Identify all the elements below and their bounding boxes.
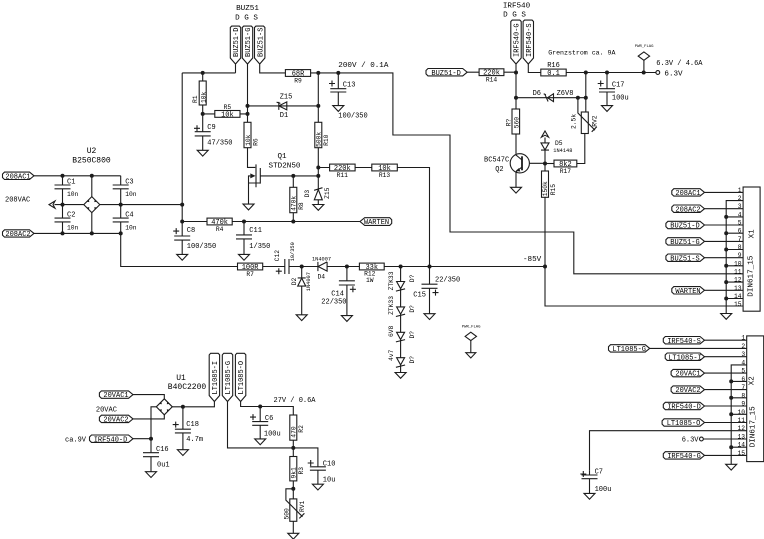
svg-text:20VAC2: 20VAC2 [675,387,700,395]
junction R5 R6 [246,112,250,116]
net label IRF540-D [90,435,134,445]
svg-text:ZTK33: ZTK33 [388,296,395,315]
svg-text:RV2: RV2 [591,115,598,127]
net label 20VAC1 X2 [671,369,747,378]
junction Q2 base D5 [543,162,547,166]
capacitor C8 [173,222,216,255]
svg-text:208AC2: 208AC2 [5,231,30,239]
svg-text:208AC1: 208AC1 [675,190,700,198]
net label LT1085-O X2 [662,419,747,428]
svg-text:22/350: 22/350 [321,298,346,306]
ground C16 [146,472,157,478]
resistor R11 [330,164,356,179]
wire -85V to X1 pin15 [545,267,743,307]
svg-text:R15: R15 [550,184,557,196]
svg-text:D?: D? [409,305,416,313]
svg-text:208VAC: 208VAC [5,197,30,205]
junction R1 R5 [201,112,205,116]
net label 20VAC1 [99,391,133,400]
net label 20VAC2 X2 [671,386,747,395]
svg-text:Z15: Z15 [280,94,293,102]
junction drain R8 [291,174,295,178]
junction warten R8 [291,220,295,224]
svg-text:4v7: 4v7 [388,349,395,361]
resistor R1 [192,73,207,114]
svg-text:LT1085-I: LT1085-I [668,354,702,362]
svg-text:WARTEN: WARTEN [675,288,700,296]
wire IRF540-D [133,438,151,440]
junction rail R14 G [514,71,518,75]
svg-text:IRF540-S: IRF540-S [526,23,534,57]
svg-text:20VAC: 20VAC [96,407,117,415]
net label 208AC2 [3,230,35,239]
svg-text:R9: R9 [294,77,302,84]
junction X1 pin6 [724,231,728,235]
svg-text:IRF540-G: IRF540-G [667,453,701,461]
junction X1 pin10 [724,264,728,268]
wire WARTEN line [182,221,360,223]
svg-text:Z6V8: Z6V8 [557,90,574,98]
svg-text:208AC1: 208AC1 [5,173,30,181]
svg-text:20VAC1: 20VAC1 [675,371,700,379]
wire bridge plus [172,406,215,408]
svg-text:6.3V / 4.6A: 6.3V / 4.6A [656,60,703,68]
net label LT1085-G vertical [222,353,293,448]
net label IRF540-G vertical [511,20,522,64]
svg-text:X1: X1 [748,229,756,239]
wire RV2 feed [585,73,587,113]
svg-text:0u1: 0u1 [157,461,170,469]
svg-text:Q2: Q2 [495,166,503,174]
ground RV1 [288,533,299,539]
svg-text:LT1085-G: LT1085-G [225,361,233,395]
svg-text:D G S: D G S [235,14,258,22]
net label IRF540-G X2 [663,452,746,461]
resistor R9 [285,70,310,85]
svg-text:C6: C6 [265,415,273,423]
svg-text:D?: D? [409,274,416,282]
junction X1 pin12 [724,280,728,284]
svg-text:LT1085-G: LT1085-G [612,346,646,354]
svg-text:IRF540: IRF540 [503,3,531,11]
zener D3 Z15 [304,176,331,205]
wire top rail left segment [182,64,235,73]
svg-text:C3: C3 [125,179,133,187]
trimmer RV1 [283,489,306,534]
svg-text:C7: C7 [595,468,603,476]
ground D2 [296,315,307,321]
resistor R14 [467,69,516,84]
net label IRF540-S vertical [523,20,534,64]
junction G D6 [514,96,518,100]
svg-text:R?: R? [506,119,513,127]
zener chain D7b [388,296,416,333]
junction C12 D2 [300,265,304,269]
net label LT1085-I vertical [209,353,220,407]
ground zener chain [395,373,406,379]
junction C3C4 mid [119,203,123,207]
junction X1 pin14 [724,297,728,301]
svg-text:10n: 10n [125,191,137,198]
svg-text:1N4007: 1N4007 [306,272,312,291]
wire low line segs [347,266,545,268]
svg-text:1/350: 1/350 [249,243,270,251]
zener chain D7c [388,325,416,357]
svg-text:DIN617_15: DIN617_15 [747,255,755,296]
svg-text:R16: R16 [547,62,560,70]
ground X1 [721,314,732,320]
ground Q1 source [243,204,254,210]
junction C15 [428,265,432,269]
svg-text:IRF540-S: IRF540-S [667,338,701,346]
junction rail RV2 [584,71,588,75]
svg-text:D?: D? [409,356,416,364]
ground Q2 [511,187,522,193]
junction R2 R3 [291,446,295,450]
junction D6 RV2 [584,96,588,100]
junction X2 pin8 [729,396,733,400]
capacitor C9 [194,114,233,150]
svg-text:208AC2: 208AC2 [675,206,700,214]
svg-text:BUZ51: BUZ51 [236,5,259,13]
svg-text:RV1: RV1 [299,500,306,512]
capacitor C16 [143,446,170,472]
junction C1C2 mid [61,203,65,207]
capacitor C11 [236,222,270,255]
capacitor C13 [329,73,368,121]
svg-text:470k: 470k [291,196,298,211]
svg-text:D G S: D G S [503,12,526,20]
svg-text:C8: C8 [187,227,195,235]
svg-text:BUZ51-G: BUZ51-G [245,28,253,57]
junction bridge top [90,174,94,178]
svg-text:BUZ51-D: BUZ51-D [670,223,699,231]
svg-text:11: 11 [734,269,742,276]
svg-text:ca.9V: ca.9V [65,436,87,444]
svg-text:C4: C4 [125,211,133,219]
junction C4 corner [119,231,123,235]
capacitor C3 [113,176,137,205]
svg-text:R1: R1 [192,95,199,103]
svg-text:C10: C10 [323,460,336,468]
resistor R6 [244,122,260,167]
junction IRF540-D C16 [149,437,153,441]
svg-text:LT1085-O: LT1085-O [667,420,701,428]
svg-text:PWR_FLAG: PWR_FLAG [462,326,481,330]
junction rail pwrflag [642,71,646,75]
wire R11 R13 line [318,168,429,267]
ground C14 [341,316,352,322]
svg-text:0.1: 0.1 [547,70,560,78]
junction bridge bottom [90,231,94,235]
transistor Q2 [510,154,545,188]
svg-text:6.3V: 6.3V [682,437,700,445]
wire BUZ51-G tail [247,64,249,122]
resistor R15 [542,164,557,267]
net label 20VAC2 [99,415,133,424]
wire top rail S segment [260,64,286,73]
ground C13 [333,106,344,112]
svg-text:10/350: 10/350 [290,242,296,261]
svg-text:BUZ51-D: BUZ51-D [431,70,460,78]
net label 208AC2 X1 [672,205,743,214]
wire bridge mid left [55,204,84,206]
wire bridge mid right [100,204,182,206]
bridge rectifier U2 [84,197,100,213]
svg-text:C13: C13 [343,82,356,90]
svg-text:6V8: 6V8 [388,325,395,337]
net label LT1085-O vertical [235,353,293,415]
ground C9 [197,150,208,156]
net label LT1085-I X2 [665,353,747,362]
power flag PWR_FLAG2 [462,326,481,353]
ground C18 [177,450,188,456]
svg-text:470: 470 [290,426,297,438]
svg-text:10k: 10k [221,111,234,119]
terminal circle 6.3V [656,71,660,75]
svg-text:47/350: 47/350 [207,139,232,147]
resistor R10 [315,122,330,176]
ground C11 [239,254,250,260]
resistor R7 [238,263,263,278]
svg-text:20VAC1: 20VAC1 [103,392,128,400]
capacitor C17 [598,73,629,106]
svg-text:6.3V: 6.3V [664,71,683,79]
wire bridge minus to C16 [151,407,156,453]
junction rail C13 [336,71,340,75]
svg-text:R2: R2 [298,425,305,433]
svg-text:Z15: Z15 [324,187,331,199]
net arrow up D5 [541,131,548,137]
svg-text:PWR_FLAG: PWR_FLAG [635,45,654,49]
junction D4 C14 [345,265,349,269]
net label BUZ51-D X1 [666,221,743,230]
svg-text:9k1: 9k1 [290,467,297,479]
junction C18 [181,405,185,409]
junction rail C17 [605,71,609,75]
resistor R16 [541,62,566,78]
svg-text:1N4148: 1N4148 [553,148,572,154]
junction X2 pin14 [729,445,733,449]
wire S tail to R16 [528,64,541,73]
net label IRF540-S X2 [663,337,746,346]
resistor R8 [290,176,305,222]
svg-text:R5: R5 [224,104,232,111]
net label BUZ51-G vertical [242,26,253,64]
svg-text:D?: D? [409,331,416,339]
capacitor C18 [173,407,203,450]
svg-text:100u: 100u [264,430,281,438]
ground C8 [177,254,188,260]
junction R3 RV1 [291,487,295,491]
net label BUZ51-G X1 [666,238,743,247]
junction warten left [180,203,184,207]
svg-text:BUZ51-D: BUZ51-D [233,28,241,57]
diode D2 [291,267,312,315]
junction R10 R11 [316,166,320,170]
svg-text:B40C2200: B40C2200 [168,383,207,392]
svg-text:ZTK33: ZTK33 [388,271,395,290]
svg-text:R14: R14 [486,77,498,84]
svg-text:150k: 150k [542,181,549,196]
resistor Rq 560 [506,109,521,154]
ground C10 [312,484,323,490]
svg-text:R4: R4 [216,226,224,233]
resistor R17 [545,160,577,175]
svg-text:D1: D1 [280,112,288,120]
svg-text:15: 15 [734,301,742,308]
wire X2 pin12 to C7 [590,431,747,471]
junction R12 chain [399,265,403,269]
junction rail R1 [201,71,205,75]
junction -85V [543,265,547,269]
svg-text:IRF540-D: IRF540-D [94,437,128,445]
svg-text:LT1085-O: LT1085-O [238,361,246,395]
wire R16 to 6.3V [566,72,656,74]
svg-text:D5: D5 [555,140,563,147]
junction C1 top [61,174,65,178]
X2 ground bus [731,365,747,464]
svg-text:100/350: 100/350 [338,113,367,121]
zener chain D7a [388,267,416,307]
X2 pin numbers [738,335,746,457]
svg-text:100/350: 100/350 [187,243,216,251]
net arrow left [49,201,55,208]
svg-text:500k: 500k [315,132,322,147]
resistor R2 [290,415,305,448]
svg-text:10n: 10n [67,191,79,198]
wire G tail down [515,64,517,109]
wire C13 R10 vertical [317,73,319,122]
wire bridge top stub [91,176,93,197]
svg-text:10n: 10n [125,225,137,232]
svg-text:U1: U1 [176,374,186,383]
resistor R3 [290,448,305,499]
junction X1 pin4 [724,215,728,219]
svg-text:10k: 10k [245,134,252,146]
ground PWR_FLAG2 [466,353,476,358]
svg-text:C15: C15 [413,292,426,300]
ground D3 [313,205,324,211]
capacitor C6 [250,407,281,439]
junction G Z15 [246,104,250,108]
bridge rectifier U1 [156,399,172,415]
junction drain D3 [316,174,320,178]
svg-text:WARTEN: WARTEN [364,219,389,227]
svg-text:C12: C12 [274,250,281,262]
ground C7 [584,493,595,499]
connector X1 body [743,187,760,311]
svg-text:1N4007: 1N4007 [312,256,331,262]
junction warten C11 [242,220,246,224]
zener chain D7d [388,349,416,372]
svg-text:-85V: -85V [523,256,542,264]
capacitor C10 [308,460,336,485]
diode D4 [302,256,347,280]
svg-text:LT1085-I: LT1085-I [212,361,220,395]
svg-text:BC547C: BC547C [484,156,509,164]
wire drain to R10 node [293,175,318,177]
ground C17 [602,106,613,112]
svg-text:D2: D2 [291,278,298,286]
junction C6 [258,405,262,409]
svg-text:R6: R6 [253,138,260,146]
net label WARTEN [360,218,392,227]
svg-text:R17: R17 [560,168,572,175]
svg-text:Grenzstrom ca. 9A: Grenzstrom ca. 9A [548,49,615,56]
svg-text:STD2N50: STD2N50 [269,162,301,170]
junction D6 wiper [576,96,580,100]
ground C6 [255,439,266,445]
junction X2 pin10 [729,412,733,416]
wire 20VAC2 to bridge [133,415,164,419]
svg-text:27V / 0.6A: 27V / 0.6A [274,397,317,405]
wire bridge bottom stub [91,213,93,234]
svg-text:R7: R7 [246,271,254,278]
capacitor C12 [263,242,302,274]
wire R2R3 to C10 [293,448,318,467]
wire 20VAC1 to bridge [133,395,164,399]
svg-text:4.7m: 4.7m [186,436,203,444]
svg-text:BUZ51-S: BUZ51-S [257,28,265,57]
connector X2 body [747,336,764,462]
ground C15 [424,314,435,320]
wire 208AC1 to bridge top [34,175,121,177]
svg-text:D4: D4 [318,273,326,280]
net label BUZ51-D vertical [230,26,241,64]
resistor R4 [207,218,232,233]
svg-text:560: 560 [513,117,520,129]
svg-text:B250C800: B250C800 [72,157,111,166]
svg-text:R10: R10 [323,134,330,146]
svg-text:100u: 100u [595,486,612,494]
svg-text:IRF540-D: IRF540-D [667,404,701,412]
svg-text:R8: R8 [298,202,305,210]
junction warten C8 [180,220,184,224]
svg-text:C18: C18 [186,421,199,429]
svg-text:D6: D6 [533,90,541,98]
svg-text:200V / 0.1A: 200V / 0.1A [338,62,389,70]
net label WARTEN X1 [672,287,743,296]
diode D5 [541,138,572,164]
wire top rail right segment [311,73,744,274]
wire left vertical main [181,73,183,222]
svg-text:C16: C16 [156,446,169,454]
svg-text:R13: R13 [379,172,391,179]
zener D1 Z15 [248,94,319,120]
wire 208AC2 bottom run [34,233,238,266]
svg-text:R3: R3 [298,467,305,475]
svg-text:DIN617_15: DIN617_15 [749,406,757,447]
resistor R12 [359,263,384,284]
net label IRF540-D X2 [663,402,746,411]
svg-text:1W: 1W [366,277,374,284]
X1 ground bus [726,201,743,314]
svg-text:20VAC2: 20VAC2 [103,417,128,425]
ground X2 [726,464,737,470]
zener D6 [516,90,586,102]
net label BUZ51-D top [426,69,467,78]
svg-text:BUZ51-S: BUZ51-S [670,255,699,263]
svg-text:C14: C14 [331,290,344,298]
capacitor C1 [55,176,79,205]
svg-text:C9: C9 [207,124,215,132]
svg-text:Q1: Q1 [277,153,287,161]
svg-text:10n: 10n [67,225,79,232]
transistor Q1 [249,164,294,204]
capacitor C4 [113,205,137,234]
svg-text:C11: C11 [249,227,262,235]
